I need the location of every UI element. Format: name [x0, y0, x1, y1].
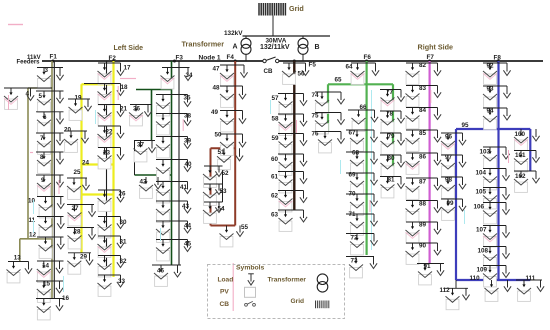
node 37 (PV + load): [134, 141, 156, 162]
svg-text:132/11kV: 132/11kV: [260, 44, 290, 51]
node 11 (PV + load): [29, 217, 65, 238]
svg-text:84: 84: [419, 107, 427, 114]
svg-text:20: 20: [64, 127, 72, 134]
svg-text:78: 78: [386, 111, 394, 118]
svg-text:80: 80: [388, 155, 396, 162]
svg-text:27: 27: [72, 205, 80, 212]
svg-text:55: 55: [241, 224, 249, 231]
node 21 (PV + load): [98, 105, 128, 126]
svg-text:93: 93: [487, 86, 495, 93]
svg-text:63: 63: [271, 212, 279, 219]
svg-text:34: 34: [186, 72, 194, 79]
node 44 (PV + load): [156, 221, 192, 242]
node 57 (PV + load): [272, 94, 308, 115]
svg-text:54: 54: [218, 206, 226, 213]
node 10 (PV + load): [28, 197, 64, 218]
svg-text:62: 62: [271, 193, 279, 200]
node 96 (PV + load): [441, 133, 466, 154]
svg-text:88: 88: [419, 201, 427, 208]
node 89 (PV + load): [406, 222, 442, 244]
svg-text:66: 66: [360, 104, 368, 111]
node 64 (PV + load): [346, 63, 380, 84]
svg-text:106: 106: [474, 204, 485, 211]
node 69 (PV + load): [346, 172, 378, 195]
svg-text:85: 85: [419, 130, 427, 137]
node 78 (PV + load): [380, 111, 405, 133]
svg-text:26: 26: [119, 191, 127, 198]
svg-text:46: 46: [157, 268, 165, 275]
node 54 (PV + load): [203, 202, 225, 223]
svg-text:12: 12: [29, 232, 37, 239]
cyan artifact line: [371, 90, 373, 250]
node 49 (PV + load): [211, 109, 246, 132]
svg-text:7: 7: [40, 135, 44, 142]
node 41 (PV + load): [156, 182, 191, 203]
node 81 (PV + load): [380, 177, 405, 198]
svg-text:104: 104: [476, 170, 487, 177]
svg-text:39: 39: [184, 138, 192, 145]
node 13 (PV + load): [7, 255, 33, 283]
svg-text:21: 21: [120, 106, 128, 113]
node 35 (PV + load): [156, 95, 191, 116]
svg-text:28: 28: [74, 229, 82, 236]
svg-text:68: 68: [352, 150, 360, 157]
svg-text:CB: CB: [220, 301, 230, 308]
svg-text:30: 30: [120, 219, 128, 226]
node 9 (PV + load): [36, 175, 64, 196]
node 109 (PV + load): [477, 266, 510, 287]
node 108 (PV + load): [478, 247, 510, 268]
svg-text:109: 109: [477, 267, 488, 274]
node 107 (PV + load): [476, 226, 510, 247]
svg-text:14: 14: [42, 263, 50, 270]
svg-text:Left Side: Left Side: [114, 45, 144, 52]
svg-text:44: 44: [184, 223, 192, 230]
svg-text:83: 83: [419, 85, 427, 92]
svg-text:108: 108: [478, 248, 489, 255]
node 99 (PV + load): [441, 199, 466, 220]
circuit breaker CB on bus: [263, 57, 279, 63]
node 111 (PV + load): [516, 275, 544, 301]
node 15 (PV + load): [36, 281, 64, 303]
svg-text:41: 41: [180, 184, 188, 191]
node 90 (PV + load): [406, 243, 442, 265]
node 34 (PV + load): [161, 68, 194, 89]
svg-text:31: 31: [120, 239, 128, 246]
svg-text:F3: F3: [176, 55, 184, 62]
node 31 (PV + load): [98, 236, 128, 257]
svg-text:Symbols: Symbols: [236, 265, 265, 272]
node 87 (PV + load): [406, 178, 442, 199]
svg-text:18: 18: [121, 84, 129, 91]
node 8 (PV + load): [36, 152, 64, 173]
node 20 (PV + load): [64, 127, 89, 153]
node 98 (PV + load): [441, 177, 466, 199]
legend PV symbol: [220, 287, 256, 297]
svg-text:56: 56: [298, 71, 306, 78]
node 76 (PV + load): [312, 131, 345, 153]
svg-text:Node 1: Node 1: [199, 54, 221, 61]
node 84 (PV + load): [406, 107, 442, 129]
node 93 (PV + load): [483, 86, 511, 108]
svg-text:52: 52: [222, 170, 230, 177]
svg-text:6: 6: [43, 114, 47, 121]
svg-text:CB: CB: [264, 68, 273, 75]
132kV bus: [243, 35, 331, 37]
svg-text:89: 89: [419, 222, 427, 229]
node 63 (PV + load): [271, 210, 307, 231]
node 43 (PV + load): [156, 201, 191, 222]
wire grid to 132kV bus: [272, 16, 274, 37]
svg-text:Right Side: Right Side: [418, 43, 454, 52]
svg-text:5: 5: [39, 93, 43, 100]
node 102 (PV + load): [514, 171, 540, 192]
node 83 (PV + load): [406, 85, 442, 107]
node 110 (PV + load): [470, 275, 512, 301]
feeder F1 olive highlighted path: [20, 61, 52, 299]
svg-text:79: 79: [388, 133, 396, 140]
node 45 (PV + load): [156, 240, 192, 261]
svg-text:59: 59: [272, 135, 280, 142]
svg-text:75: 75: [312, 113, 320, 120]
node 91 (PV + load): [417, 263, 444, 285]
svg-text:94: 94: [487, 108, 495, 115]
node 12 (PV + load): [29, 232, 64, 259]
grid symbol (hatched box): [259, 3, 285, 16]
svg-text:17: 17: [124, 65, 132, 72]
node 80 (PV + load): [380, 155, 405, 176]
node 73 (PV + load): [346, 257, 377, 278]
node 28 (PV + load): [67, 228, 96, 249]
node 38 (PV + load): [156, 113, 192, 135]
svg-text:69: 69: [349, 172, 357, 179]
svg-text:11: 11: [29, 217, 36, 224]
svg-text:132kV: 132kV: [224, 30, 243, 37]
wire inner 51-54 column: [222, 166, 224, 202]
svg-text:35: 35: [184, 95, 192, 102]
bus tap junction dots: [52, 60, 500, 63]
svg-text:33: 33: [118, 278, 126, 285]
svg-text:60: 60: [271, 156, 279, 163]
svg-text:103: 103: [480, 149, 491, 156]
svg-text:19: 19: [75, 95, 83, 102]
node 79 (PV + load): [380, 133, 405, 154]
legend Transformer symbol: [268, 274, 328, 292]
node 51 (PV + load): [217, 148, 243, 169]
legend Grid symbol: [291, 298, 329, 308]
svg-text:45: 45: [184, 241, 192, 248]
node 112 (PV + load): [440, 280, 470, 310]
feeder F2 backbone: [106, 61, 108, 275]
node 94 (PV + load): [483, 108, 511, 130]
svg-text:47: 47: [213, 66, 221, 73]
node 17 (PV + load): [98, 63, 132, 84]
legend Load symbol: [218, 274, 255, 285]
node 33 (PV + load): [98, 275, 126, 296]
svg-text:57: 57: [272, 95, 280, 102]
svg-text:99: 99: [447, 200, 455, 207]
svg-text:37: 37: [137, 142, 145, 149]
svg-text:90: 90: [419, 243, 427, 250]
node 36 (PV + load): [129, 105, 152, 126]
node 39 (PV + load): [156, 137, 192, 158]
svg-text:58: 58: [272, 116, 280, 123]
node 70 (PV + load): [346, 191, 378, 216]
node 61 (PV + load): [271, 172, 307, 193]
svg-text:40: 40: [185, 161, 193, 168]
svg-text:107: 107: [476, 227, 487, 234]
node 62 (PV + load): [271, 191, 307, 212]
node 101 (PV + load): [514, 151, 540, 172]
node 77 (PV + load): [380, 89, 405, 111]
svg-text:102: 102: [515, 173, 526, 180]
svg-text:48: 48: [213, 85, 221, 92]
node 19 (PV + load): [68, 95, 92, 121]
node 52 (PV + load): [203, 166, 229, 187]
svg-text:Load: Load: [218, 277, 234, 284]
svg-text:74: 74: [312, 92, 320, 99]
svg-text:50: 50: [215, 132, 223, 139]
node 74 (PV + load): [312, 92, 345, 113]
svg-text:65: 65: [335, 77, 343, 84]
svg-text:95: 95: [462, 122, 470, 129]
feeder F4 dark red highlighted path (ring): [211, 61, 236, 226]
svg-text:8: 8: [40, 154, 44, 161]
svg-text:Transformer: Transformer: [182, 39, 225, 48]
svg-text:87: 87: [419, 179, 427, 186]
svg-text:25: 25: [74, 169, 82, 176]
node 72 (PV + load): [346, 234, 378, 255]
node 75 (PV + load): [312, 113, 345, 134]
decorative scan artifacts: [8, 25, 509, 312]
node 106 (PV + load): [474, 203, 510, 224]
transformer A: [241, 36, 251, 61]
svg-text:4: 4: [26, 91, 30, 98]
svg-text:86: 86: [419, 154, 427, 161]
svg-text:97: 97: [445, 154, 453, 161]
svg-text:98: 98: [445, 177, 453, 184]
svg-text:22: 22: [106, 129, 114, 136]
svg-text:B: B: [315, 44, 320, 51]
node 59 (PV + load): [272, 134, 308, 155]
main 11kV bus: [42, 60, 263, 62]
feeder F3 backbone: [178, 61, 180, 265]
node 55 (PV + load): [220, 224, 249, 247]
svg-text:36: 36: [133, 106, 141, 113]
svg-text:10: 10: [28, 198, 36, 205]
node 85 (PV + load): [406, 130, 442, 151]
wire 37 to 42: [134, 141, 136, 176]
node 86 (PV + load): [406, 153, 442, 174]
svg-text:3: 3: [45, 67, 49, 74]
node 23 (PV + load): [98, 148, 125, 169]
node 29 (PV + load): [67, 253, 93, 274]
node 104 (PV + load): [476, 169, 510, 190]
feeder F1 backbone: [53, 61, 55, 299]
svg-text:53: 53: [220, 188, 228, 195]
node 4 (PV + load): [4, 88, 52, 109]
svg-text:91: 91: [424, 263, 432, 270]
svg-text:64: 64: [346, 64, 354, 71]
svg-text:F5: F5: [309, 61, 317, 68]
svg-text:23: 23: [103, 150, 111, 157]
node 68 (PV + load): [346, 150, 378, 174]
node 50 (PV + load): [215, 132, 247, 156]
svg-text:110: 110: [470, 275, 481, 282]
svg-text:72: 72: [351, 235, 359, 242]
node 67 (PV + load): [346, 130, 378, 152]
node 16 (PV + load): [36, 295, 70, 320]
node 58 (PV + load): [272, 114, 308, 135]
svg-text:73: 73: [351, 258, 359, 265]
feeder F2 yellow highlighted path: [82, 61, 114, 277]
node 105 (PV + load): [476, 188, 510, 209]
svg-text:77: 77: [386, 89, 394, 96]
node 7 (PV + load): [36, 133, 64, 154]
transformer B: [298, 36, 308, 61]
node 18 (PV + load): [84, 84, 128, 105]
node 25 (PV + load): [67, 169, 90, 199]
node 82 (PV + load): [406, 62, 442, 84]
svg-text:43: 43: [182, 203, 190, 210]
node 71 (PV + load): [346, 211, 378, 235]
feeder F6 green highlighted path: [328, 61, 393, 255]
node 14 (PV + load): [37, 261, 64, 282]
node 46 (PV + load): [152, 265, 181, 286]
svg-text:F1: F1: [50, 54, 58, 61]
svg-text:101: 101: [515, 152, 526, 159]
svg-text:Feeders: Feeders: [17, 60, 41, 66]
svg-text:71: 71: [349, 211, 357, 218]
svg-text:Grid: Grid: [289, 4, 304, 13]
node 88 (PV + load): [406, 201, 442, 222]
node 30 (PV + load): [98, 217, 128, 238]
svg-text:9: 9: [41, 177, 45, 184]
svg-text:42: 42: [140, 179, 148, 186]
node 3 (PV + load): [37, 67, 64, 89]
node 97 (PV + load): [441, 154, 466, 176]
node 22 (PV + load): [98, 126, 125, 147]
svg-text:82: 82: [419, 62, 427, 69]
node 42 (PV + load): [139, 177, 162, 198]
legend box: [208, 265, 345, 319]
node 47 (PV + load): [213, 65, 248, 86]
feeder F5 dark brown backbone: [293, 61, 295, 210]
node 103 (PV + load): [480, 147, 510, 168]
svg-text:51: 51: [218, 149, 226, 156]
svg-text:38: 38: [184, 113, 192, 120]
node 32 (PV + load): [98, 256, 128, 277]
node 56 (PV + load): [282, 63, 309, 84]
svg-text:100: 100: [515, 131, 526, 138]
node 5 (PV + load): [36, 91, 64, 112]
svg-text:111: 111: [526, 275, 536, 282]
legend CB symbol: [220, 301, 256, 308]
svg-text:96: 96: [445, 134, 453, 141]
svg-text:13: 13: [14, 255, 22, 262]
svg-text:61: 61: [271, 174, 279, 181]
svg-text:Transformer: Transformer: [268, 277, 307, 284]
svg-text:A: A: [233, 43, 238, 50]
svg-text:67: 67: [349, 130, 357, 137]
node 6 (PV + load): [36, 112, 64, 133]
svg-text:112: 112: [440, 287, 451, 294]
svg-text:15: 15: [43, 281, 51, 288]
node 92 (PV + load): [483, 63, 511, 85]
node 27 (PV + load): [67, 205, 96, 226]
node 26 (PV + load): [98, 190, 127, 211]
node 40 (PV + load): [156, 160, 192, 181]
svg-text:49: 49: [211, 109, 219, 116]
svg-text:24: 24: [82, 160, 90, 167]
svg-text:70: 70: [349, 191, 357, 198]
svg-text:Grid: Grid: [291, 298, 305, 305]
feeder F8 blue highlighted path (ring): [456, 61, 530, 280]
node 53 (PV + load): [203, 184, 227, 205]
svg-text:PV: PV: [220, 289, 229, 296]
svg-text:92: 92: [487, 63, 495, 70]
node 66 (PV + load): [348, 104, 378, 131]
svg-text:81: 81: [388, 177, 396, 184]
feeder F7 magenta backbone: [429, 61, 431, 264]
svg-text:105: 105: [476, 189, 487, 196]
node 100 (PV + load): [514, 129, 540, 150]
node 48 (PV + load): [213, 85, 247, 108]
node 60 (PV + load): [271, 154, 307, 175]
svg-text:F4: F4: [227, 54, 235, 61]
svg-text:76: 76: [312, 131, 320, 138]
feeder F3 dark green highlighted path: [135, 61, 172, 265]
svg-text:29: 29: [80, 254, 88, 261]
svg-text:16: 16: [62, 295, 70, 302]
svg-text:32: 32: [120, 258, 128, 265]
